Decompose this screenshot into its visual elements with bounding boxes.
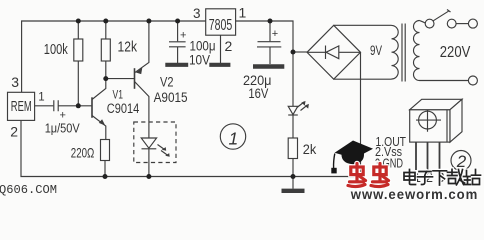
svg-text:A9015: A9015 (154, 89, 188, 105)
node 12k top (103, 19, 108, 24)
svg-text:220Ω: 220Ω (71, 145, 95, 161)
svg-text:+: + (180, 30, 186, 42)
node 100u top (175, 19, 180, 24)
primary winding 220V (414, 21, 420, 81)
core (402, 24, 405, 82)
wire 220ohm to rail (104, 161, 106, 177)
node V2 emitter top (146, 19, 151, 24)
watermark graduation cap (331, 141, 373, 174)
TO-220 package drawing (410, 99, 462, 170)
resistor 2k (288, 138, 297, 159)
capacitor 100u/10V (169, 21, 186, 63)
svg-text:12k: 12k (118, 40, 138, 56)
svg-text:REM: REM (11, 99, 32, 115)
bridge rectifier (307, 25, 361, 79)
node ground rail (291, 174, 296, 179)
wire bridge AC top to transformer (334, 24, 392, 26)
svg-text:2k: 2k (303, 141, 317, 157)
circled 2 (451, 151, 471, 171)
wire 7805 output (236, 21, 293, 52)
svg-text:1: 1 (229, 129, 239, 149)
transistor V1 C9014 (92, 79, 106, 140)
node 220ohm bottom (103, 174, 108, 179)
svg-text:V1: V1 (113, 90, 124, 102)
node 220u top (268, 19, 273, 24)
wire top rail (22, 21, 206, 92)
wire bridge minus to node (293, 51, 307, 53)
transistor V2 A9015 (135, 21, 149, 138)
node bridge minus (291, 50, 296, 55)
LED2 power indicator (288, 52, 309, 138)
svg-text:100k: 100k (44, 42, 69, 58)
ground for 7805 (209, 63, 230, 67)
watermark black characters dianzixiazaizhan (404, 169, 481, 185)
dashed box around LED1 (134, 122, 176, 163)
node LED1 bottom (146, 174, 151, 179)
node V1 base (76, 103, 81, 108)
svg-text:1: 1 (38, 92, 44, 104)
secondary winding 9V (392, 25, 399, 79)
switch S1 (425, 10, 477, 86)
wire 7805 pin2 (220, 35, 222, 63)
wire 100k stubs (77, 21, 79, 106)
svg-text:+: + (60, 110, 66, 122)
svg-text:www.eeworm.com: www.eeworm.com (350, 186, 478, 199)
svg-text:2: 2 (225, 38, 233, 54)
IC 7805 box (206, 9, 236, 35)
wire 2k to rail (292, 159, 294, 177)
capacitor C 1u/50V (54, 100, 58, 111)
capacitor 220u/16V (257, 21, 281, 64)
svg-text:3: 3 (11, 74, 19, 90)
svg-text:16V: 16V (248, 85, 269, 101)
wire 12k stubs (105, 21, 107, 79)
wire bridge AC bottom to transformer (334, 78, 392, 80)
ground for 220u (253, 64, 284, 69)
wire REM pin2 to bottom rail (21, 120, 361, 176)
ground main (292, 177, 294, 189)
terminal plug top (468, 19, 477, 28)
wire LED1 to rail (148, 149, 150, 177)
REM module box (8, 92, 35, 120)
primary bottom lead (420, 80, 469, 82)
svg-text:C9014: C9014 (107, 101, 140, 116)
wire V1 collector node to V2 base (106, 78, 135, 80)
svg-text:3: 3 (193, 6, 201, 21)
resistor 220ohm (101, 140, 110, 161)
node V1 collector (103, 76, 108, 81)
watermark chongchong red characters (348, 164, 389, 187)
circled 1 (220, 124, 245, 149)
resistor 12k (101, 39, 110, 61)
wire bridge plus down to rail (360, 52, 362, 176)
svg-text:220V: 220V (440, 44, 471, 61)
terminal plug bottom (468, 76, 477, 85)
wire cap to V1 base (59, 105, 92, 107)
svg-text:+: + (272, 28, 278, 40)
transformer T1 (392, 21, 469, 82)
svg-text:10V: 10V (189, 52, 211, 68)
ground for 100u (165, 63, 188, 67)
svg-text:Q606.COM: Q606.COM (0, 183, 57, 197)
svg-text:7805: 7805 (209, 17, 233, 34)
svg-text:2: 2 (10, 124, 18, 140)
svg-text:V2: V2 (160, 74, 174, 90)
svg-text:1μ/50V: 1μ/50V (45, 122, 81, 136)
svg-text:1: 1 (239, 5, 247, 21)
svg-text:9V: 9V (370, 42, 382, 58)
wire REM pin1 to cap (35, 105, 54, 107)
resistor 100k (74, 39, 83, 61)
primary top lead (420, 21, 426, 24)
LED D1 in dashed box (141, 138, 170, 157)
node 100k top (76, 19, 81, 24)
